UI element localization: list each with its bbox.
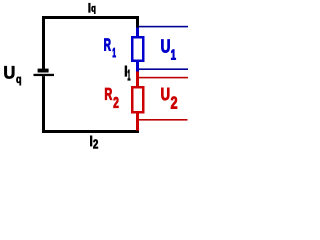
voltage source Uq short thick plate	[38, 69, 49, 73]
label Iq	[89, 3, 96, 13]
label I2	[90, 136, 98, 149]
wire left lower (source bottom lead)	[42, 76, 45, 133]
measurement line U2 top	[137, 77, 188, 79]
wire below R2 (red)	[136, 114, 139, 131]
label R2	[105, 88, 118, 108]
label I1	[125, 66, 130, 80]
wire bottom (return, carries I2)	[42, 130, 139, 133]
wire above R1 (blue, node with U1 tap)	[136, 28, 139, 37]
wire above R2 (red)	[136, 72, 139, 87]
label U1	[161, 40, 175, 60]
measurement line U2 bottom	[139, 119, 188, 121]
wire left upper (source top lead)	[42, 16, 45, 69]
label Uq	[4, 66, 20, 85]
wire right upper black segment	[136, 16, 139, 28]
label R1	[104, 38, 115, 57]
resistor R1 body	[132, 37, 143, 61]
measurement line U1 bottom	[139, 68, 188, 70]
wire top (between source and R1, carries Iq)	[42, 16, 139, 19]
label U2	[161, 88, 177, 109]
resistor R2 body	[132, 87, 143, 112]
measurement line U1 top	[139, 26, 188, 28]
voltage source Uq long thin plate	[34, 74, 55, 76]
wire below R1 (blue, carries I1)	[136, 62, 139, 72]
